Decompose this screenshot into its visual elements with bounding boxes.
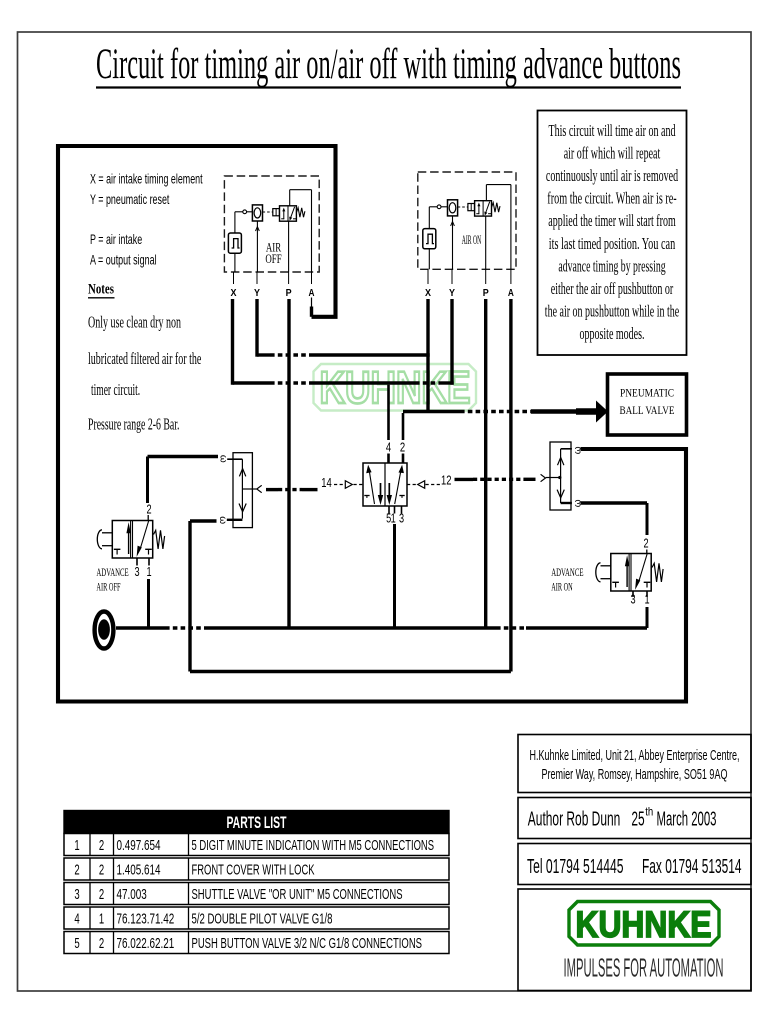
wire: ADVANCE AIR ON port1 to supply bbox=[646, 607, 649, 628]
svg-text:4: 4 bbox=[74, 910, 79, 927]
KUHNKE watermark octagon bbox=[314, 364, 477, 411]
parts list row 1 bbox=[64, 834, 449, 856]
svg-text:2: 2 bbox=[99, 861, 104, 878]
svg-text:IMPULSES FOR AUTOMATION: IMPULSES FOR AUTOMATION bbox=[564, 953, 724, 983]
svg-text:ω: ω bbox=[217, 516, 228, 524]
timer AIR ON pulse-to-timer link bbox=[428, 207, 430, 229]
svg-text:3: 3 bbox=[74, 886, 79, 903]
svg-text:Only use clean dry non: Only use clean dry non bbox=[88, 313, 181, 332]
pushbutton valve ADVANCE AIR OFF: left position flow arrow bbox=[128, 530, 130, 554]
svg-text:5/2 DOUBLE PILOT VALVE G1/8: 5/2 DOUBLE PILOT VALVE G1/8 bbox=[192, 910, 333, 927]
svg-text:KUHNKE: KUHNKE bbox=[320, 362, 471, 413]
wire: X(AIR OFF) drop bbox=[231, 299, 234, 385]
pushbutton valve ADVANCE AIR ON: right position flow path bbox=[639, 554, 647, 582]
svg-text:Premier Way, Romsey, Hampshire: Premier Way, Romsey, Hampshire, SO51 9AQ bbox=[542, 766, 728, 783]
svg-text:X: X bbox=[231, 287, 237, 299]
right shuttle valve (OR unit) body bbox=[550, 442, 571, 510]
left shuttle up-check arrow bbox=[239, 469, 245, 477]
timer AIR OFF feedback link to A bbox=[289, 190, 291, 206]
timer AIR OFF X link bbox=[234, 253, 236, 272]
svg-text:ω: ω bbox=[218, 455, 229, 463]
svg-text:PUSH BUTTON VALVE 3/2 N/C G1/8: PUSH BUTTON VALVE 3/2 N/C G1/8 CONNECTIO… bbox=[192, 935, 423, 952]
wire: valve port 2 riser bbox=[402, 413, 405, 440]
svg-text:X: X bbox=[425, 287, 431, 299]
pushbutton valve ADVANCE AIR OFF: left exhaust T bbox=[114, 548, 121, 550]
svg-text:BALL VALVE: BALL VALVE bbox=[620, 405, 675, 417]
svg-text:FRONT COVER WITH LOCK: FRONT COVER WITH LOCK bbox=[192, 861, 315, 878]
svg-text:ω: ω bbox=[572, 499, 583, 507]
svg-text:This circuit will time air on: This circuit will time air on and bbox=[549, 121, 676, 140]
author box bbox=[518, 798, 751, 839]
wire: right shuttle top output to loop [line y=449] bbox=[581, 447, 687, 450]
svg-text:AIR OFF: AIR OFF bbox=[96, 580, 120, 594]
wire: lower loop riser x=190 bbox=[188, 521, 191, 672]
svg-text:SHUTTLE VALVE "OR UNIT" M5 CON: SHUTTLE VALVE "OR UNIT" M5 CONNECTIONS bbox=[192, 886, 403, 903]
pilot 14 dashed lead with arrow bbox=[334, 484, 345, 486]
wire: lower loop horizontal [y=671.5] bbox=[190, 670, 511, 673]
parts list row 5 bbox=[64, 932, 449, 954]
pneumatic ball valve box bbox=[608, 374, 687, 435]
pilot 12 arrow into right shuttle bbox=[541, 474, 546, 481]
parts list header bbox=[64, 811, 449, 834]
svg-text:either the air off pushbutton: either the air off pushbutton or bbox=[551, 279, 674, 298]
svg-text:12: 12 bbox=[441, 473, 452, 488]
pushbutton valve ADVANCE AIR OFF: body bbox=[112, 521, 152, 559]
timer AIR OFF pulse generator box bbox=[228, 233, 241, 253]
title underline bbox=[96, 86, 681, 88]
timer AIR OFF P supply link bbox=[288, 221, 290, 272]
wire: Y(AIR OFF) to X(AIR ON) [line y=355] bbox=[257, 353, 270, 356]
timer AIR ON return spring bbox=[492, 203, 501, 212]
svg-text:1: 1 bbox=[146, 565, 151, 579]
svg-text:P: P bbox=[483, 287, 489, 299]
timer AIR ON X link bbox=[428, 249, 430, 269]
timer AIR ON adjustable restrictor box bbox=[448, 200, 458, 216]
svg-text:47.003: 47.003 bbox=[117, 886, 147, 903]
ADVANCE AIR OFF port stubs bbox=[136, 558, 138, 566]
pushbutton valve ADVANCE AIR OFF: button actuator bbox=[102, 532, 112, 534]
telephone box bbox=[518, 844, 751, 885]
wire: 5/2 valve port1 to supply bbox=[393, 524, 396, 628]
ADVANCE AIR ON port stubs bbox=[632, 591, 634, 597]
svg-text:Y: Y bbox=[449, 287, 455, 299]
svg-text:H.Kuhnke Limited, Unit 21, Abb: H.Kuhnke Limited, Unit 21, Abbey Enterpr… bbox=[530, 747, 740, 764]
wire: Y(AIR ON) drop bbox=[450, 299, 453, 385]
svg-text:2: 2 bbox=[74, 861, 79, 878]
svg-text:air off which will repeat: air off which will repeat bbox=[564, 144, 661, 163]
svg-text:2: 2 bbox=[400, 440, 405, 455]
svg-text:P: P bbox=[286, 287, 292, 299]
timer AIR OFF port leader lines bbox=[233, 272, 235, 284]
svg-text:ADVANCE: ADVANCE bbox=[551, 565, 583, 579]
wire: main air supply line [y=628] bbox=[116, 626, 165, 629]
pilot line 12 from right shuttle bbox=[407, 484, 417, 486]
svg-text:its last timed position. You: its last timed position. You can bbox=[549, 234, 676, 253]
pushbutton valve ADVANCE AIR ON: button actuator bbox=[601, 565, 611, 567]
left shuttle output to pilot 14 bbox=[242, 488, 252, 490]
5/2 valve bottom port stubs bbox=[388, 506, 390, 514]
svg-text:3: 3 bbox=[134, 565, 139, 579]
svg-text:1: 1 bbox=[644, 593, 649, 607]
svg-text:1: 1 bbox=[74, 837, 79, 854]
svg-text:ADVANCE: ADVANCE bbox=[96, 565, 128, 579]
svg-text:AIR ON: AIR ON bbox=[551, 580, 573, 594]
svg-text:ω: ω bbox=[572, 446, 583, 454]
svg-text:A: A bbox=[508, 287, 514, 299]
svg-text:5 DIGIT MINUTE INDICATION WITH: 5 DIGIT MINUTE INDICATION WITH M5 CONNEC… bbox=[192, 837, 435, 854]
svg-text:X = air intake timing element: X = air intake timing element bbox=[90, 171, 203, 187]
parts list row 2 bbox=[64, 858, 449, 880]
timer AIR ON pilot dashed link bbox=[458, 206, 468, 208]
svg-text:1: 1 bbox=[99, 910, 104, 927]
svg-text:3: 3 bbox=[399, 512, 404, 526]
svg-text:25: 25 bbox=[631, 808, 644, 830]
svg-text:A = output signal: A = output signal bbox=[90, 252, 157, 268]
pilot line 14 from left shuttle bbox=[252, 488, 256, 490]
svg-text:OFF: OFF bbox=[265, 252, 281, 266]
svg-text:2: 2 bbox=[99, 886, 104, 903]
right shuttle up-check arrow bbox=[558, 457, 564, 465]
svg-text:applied the timer will start f: applied the timer will start from bbox=[548, 211, 676, 230]
svg-text:Y = pneumatic reset: Y = pneumatic reset bbox=[90, 191, 169, 207]
wire: Y(AIR OFF) drop bbox=[255, 299, 258, 357]
wire: X(AIR ON) drop to output line bbox=[426, 299, 429, 413]
5/2 double pilot valve body bbox=[363, 463, 407, 506]
parts list row 3 bbox=[64, 883, 449, 905]
svg-text:5: 5 bbox=[74, 935, 79, 952]
wire: ADVANCE AIR ON port2 feed from right shuttle bottom bbox=[581, 501, 648, 504]
svg-text:Notes: Notes bbox=[88, 282, 114, 298]
svg-text:KUHNKE: KUHNKE bbox=[576, 904, 712, 945]
pushbutton valve ADVANCE AIR ON: right exhaust T bbox=[644, 581, 651, 583]
svg-text:PARTS LIST: PARTS LIST bbox=[227, 813, 287, 832]
svg-text:P = air intake: P = air intake bbox=[90, 231, 142, 247]
svg-text:2: 2 bbox=[643, 537, 648, 551]
pushbutton valve ADVANCE AIR ON: return spring bbox=[652, 563, 663, 582]
wire: ADVANCE AIR OFF signal to left shuttle top input bbox=[148, 455, 219, 458]
svg-text:March 2003: March 2003 bbox=[657, 808, 717, 830]
svg-text:76.123.71.42: 76.123.71.42 bbox=[117, 910, 175, 927]
svg-text:Tel 01794 514445: Tel 01794 514445 bbox=[527, 856, 624, 878]
supply source bullseye bbox=[95, 612, 114, 649]
svg-text:Y: Y bbox=[254, 287, 260, 299]
svg-text:4: 4 bbox=[386, 440, 391, 455]
svg-text:2: 2 bbox=[99, 935, 104, 952]
right shuttle down-check arrow bbox=[557, 490, 564, 498]
timer AIR ON internal 3/2 valve bbox=[468, 204, 475, 211]
svg-text:AIR ON: AIR ON bbox=[462, 233, 482, 247]
pushbutton valve ADVANCE AIR ON: left exhaust T bbox=[612, 581, 619, 583]
logo box bbox=[518, 889, 751, 991]
timer AIR OFF internal 3/2 valve bbox=[273, 209, 280, 216]
KUHNKE logo octagon bbox=[569, 902, 719, 946]
svg-text:1.405.614: 1.405.614 bbox=[117, 861, 161, 878]
svg-text:the air on pushbutton while in: the air on pushbutton while in the bbox=[545, 301, 679, 320]
timer AIR OFF pilot dashed link bbox=[263, 211, 273, 213]
wire: P(AIR OFF) supply drop bbox=[287, 299, 290, 628]
timer AIR OFF pulse-to-timer link bbox=[234, 212, 236, 233]
svg-text:continuously until air is remo: continuously until air is removed bbox=[546, 166, 678, 185]
parts list row 4 bbox=[64, 907, 449, 929]
wire: P(AIR ON) supply drop bbox=[484, 299, 487, 628]
svg-text:Circuit for timing air on/air: Circuit for timing air on/air off with t… bbox=[96, 41, 681, 88]
svg-text:2: 2 bbox=[99, 837, 104, 854]
svg-text:1: 1 bbox=[391, 512, 396, 526]
svg-text:th: th bbox=[645, 805, 653, 819]
wire: valve port 4 riser bbox=[387, 385, 390, 440]
timer AIR ON feedback link to A bbox=[485, 185, 487, 201]
wire: X(AIR OFF) to port4 and Y(AIR ON) [line y=383] bbox=[233, 381, 271, 384]
timer AIR OFF return spring bbox=[296, 208, 305, 217]
timer element AIR ON: dashed enclosure bbox=[418, 172, 516, 269]
wire: ADVANCE AIR OFF port2 signal riser bbox=[146, 457, 149, 504]
timer AIR OFF Y reset link bbox=[256, 221, 258, 272]
svg-text:PNEUMATIC: PNEUMATIC bbox=[620, 388, 674, 400]
svg-text:lubricated filtered air for th: lubricated filtered air for the bbox=[88, 349, 201, 368]
wire: ADVANCE AIR OFF port1 to supply bbox=[147, 579, 150, 628]
description text box bbox=[538, 111, 687, 356]
timer AIR ON P supply link bbox=[485, 216, 487, 269]
pushbutton valve ADVANCE AIR OFF: right exhaust T bbox=[145, 548, 152, 550]
svg-text:advance timing by pressing: advance timing by pressing bbox=[558, 256, 665, 275]
svg-text:Pressure range 2-6 Bar.: Pressure range 2-6 Bar. bbox=[88, 415, 179, 434]
pushbutton valve ADVANCE AIR OFF: return spring bbox=[154, 530, 165, 549]
wire: A(AIR OFF) feed loop around drawing to right shuttle top input bbox=[311, 298, 313, 309]
timer AIR ON Y reset link bbox=[452, 216, 454, 269]
svg-text:76.022.62.21: 76.022.62.21 bbox=[117, 935, 175, 952]
wire: left shuttle bottom input stub bbox=[190, 519, 217, 522]
svg-text:Author Rob Dunn: Author Rob Dunn bbox=[528, 808, 621, 830]
pushbutton valve ADVANCE AIR OFF: right position flow path bbox=[140, 521, 148, 549]
timer AIR OFF adjustable restrictor box bbox=[252, 205, 262, 221]
svg-text:0.497.654: 0.497.654 bbox=[117, 837, 161, 854]
svg-text:opposite modes.: opposite modes. bbox=[580, 324, 645, 343]
5/2 valve right position internals bbox=[395, 471, 401, 504]
svg-text:Fax 01794 513514: Fax 01794 513514 bbox=[642, 856, 742, 878]
timer element AIR OFF: dashed enclosure bbox=[224, 176, 319, 272]
left shuttle valve (OR unit) body bbox=[233, 453, 252, 528]
svg-text:2: 2 bbox=[146, 503, 151, 517]
svg-text:3: 3 bbox=[630, 593, 635, 607]
pushbutton valve ADVANCE AIR ON: left position flow arrow bbox=[626, 563, 628, 587]
arrow into pneumatic ball valve bbox=[596, 401, 608, 423]
wire: port 2 output to pneumatic ball valve [line y=411.5] bbox=[403, 410, 460, 413]
5/2 valve left position internals bbox=[369, 471, 374, 504]
svg-text:timer circuit.: timer circuit. bbox=[91, 380, 140, 399]
pushbutton valve ADVANCE AIR ON: body bbox=[611, 554, 651, 592]
address box bbox=[518, 735, 751, 793]
svg-text:14: 14 bbox=[321, 475, 332, 490]
timer AIR ON pulse generator box bbox=[423, 229, 436, 249]
svg-text:A: A bbox=[309, 287, 315, 299]
timer AIR ON port leader lines bbox=[427, 269, 429, 284]
left shuttle down-check arrow bbox=[239, 504, 246, 512]
svg-text:from the circuit. When air is: from the circuit. When air is re- bbox=[547, 189, 677, 208]
wire: A(AIR ON) drop to lower loop bbox=[509, 299, 512, 672]
